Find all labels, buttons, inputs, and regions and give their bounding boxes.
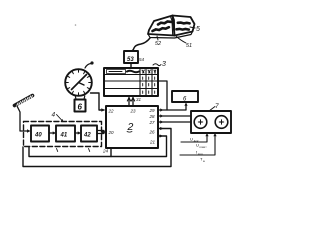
wire table to right rail [158, 81, 167, 110]
label 51 [186, 43, 192, 49]
reel right [215, 116, 228, 129]
box 42 [81, 126, 97, 142]
svg-text:max: max [200, 145, 206, 149]
wire clock to box 2 pin 22 [91, 93, 105, 110]
clock set arrow [85, 64, 91, 69]
book page scribbles [153, 22, 190, 31]
table row1 scribbles [107, 70, 126, 74]
svg-text:4: 4 [52, 112, 56, 119]
clock ticks [66, 70, 91, 95]
svg-text:23: 23 [130, 109, 137, 114]
label 54 [139, 57, 145, 62]
label 31 [136, 97, 142, 102]
svg-text:5: 5 [196, 26, 200, 33]
svg-text:3: 3 [162, 61, 166, 68]
table cell marks [142, 70, 156, 93]
wire pin 29 to box 6 [158, 104, 186, 110]
table row lines [104, 74, 158, 76]
wire book to box 53 (wavy cord) [131, 38, 150, 51]
tick mark [89, 149, 90, 152]
svg-text:40: 40 [34, 133, 42, 139]
paper speck [75, 24, 77, 26]
svg-text:7: 7 [215, 103, 219, 110]
wire pin 27 to box 7 [158, 121, 191, 123]
label 3 with tilde leader [162, 61, 166, 68]
reel left [194, 116, 207, 129]
svg-text:42: 42 [83, 133, 91, 139]
wire pin 28 to box 7 [158, 115, 191, 117]
feedback wire box2 bottom to loop [110, 148, 112, 157]
svg-text:53: 53 [127, 57, 134, 63]
dashed group box 4 [24, 122, 102, 147]
svg-text:29: 29 [149, 108, 156, 113]
signal t_imp into box 7 bottom [180, 135, 215, 156]
pin 23 [130, 109, 137, 114]
tick mark [57, 149, 58, 152]
svg-text:24: 24 [102, 149, 109, 154]
bus table to box 2 (pins 23) [128, 98, 130, 107]
pin 29 [149, 108, 156, 113]
wire 41 to 42 [75, 132, 80, 134]
table column lines [139, 68, 141, 96]
pin 26 [149, 130, 156, 135]
svg-text:54: 54 [139, 57, 145, 62]
pin 20 [108, 130, 115, 135]
box 2 (central control unit) [106, 106, 158, 148]
label 7 [215, 103, 219, 110]
wire 40 to 41 [49, 132, 55, 134]
svg-text:41: 41 [60, 133, 68, 139]
svg-text:52: 52 [155, 41, 161, 47]
book 5 (open ticket booklet, top right) [148, 16, 195, 39]
label 4 [52, 112, 56, 119]
svg-text:21: 21 [149, 140, 156, 145]
clock 6 (timer dial) [65, 69, 92, 96]
pin 22 [108, 109, 115, 114]
svg-text:20: 20 [108, 130, 115, 135]
box 6 (display, top right) [172, 91, 198, 102]
svg-text:27: 27 [149, 120, 156, 125]
svg-text:2: 2 [127, 121, 134, 133]
paper speck [205, 146, 206, 147]
svg-text:22: 22 [108, 109, 115, 114]
label 52 [155, 41, 161, 47]
svg-text:6: 6 [78, 103, 83, 112]
wire antenna to box 40 [17, 106, 29, 131]
antenna 4x (hatched rod) [15, 95, 33, 106]
box 7 (recorder with two reels) [191, 111, 231, 133]
feedback wire pin 26 loop (outer) [23, 129, 171, 167]
table 3 (register display) [104, 68, 158, 96]
svg-text:28: 28 [149, 114, 156, 119]
pin 24 mark below box 2 [102, 149, 109, 154]
clock crown box 6 [75, 100, 86, 112]
wire 53 to table 3 [130, 63, 132, 68]
bus 42 to box 2 pin 20 [97, 131, 104, 134]
box 41 [56, 126, 75, 142]
signal U_Ank into box 7 bottom [181, 135, 207, 143]
box 40 [31, 126, 49, 142]
svg-text:31: 31 [136, 97, 142, 102]
svg-text:imp: imp [198, 152, 203, 156]
label 5 [196, 26, 200, 33]
svg-text:51: 51 [186, 43, 192, 49]
pin 27 [149, 120, 156, 125]
box 53 (card reader) [124, 51, 138, 63]
pin 21 [149, 140, 156, 145]
feedback wire pin 21 loop (inner) [29, 136, 167, 157]
pin 28 [149, 114, 156, 119]
svg-text:26: 26 [149, 130, 156, 135]
clock hands [72, 75, 87, 90]
